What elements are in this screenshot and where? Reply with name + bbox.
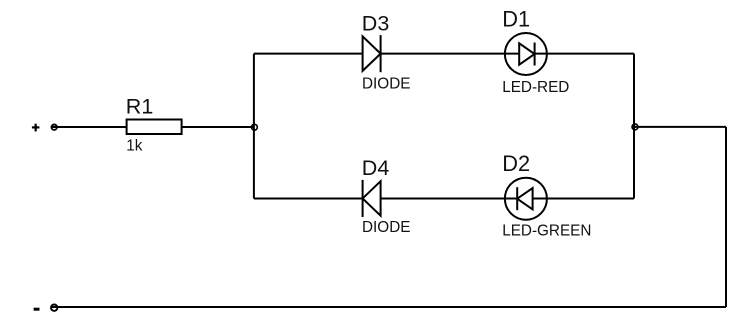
wire + terminal to R1 bbox=[52, 126, 127, 128]
diode D3 bbox=[363, 35, 381, 72]
svg-text:R1: R1 bbox=[126, 94, 153, 118]
wire right branch vertical bbox=[633, 54, 635, 199]
node left junction bbox=[252, 124, 258, 130]
wire far-right vertical bbox=[725, 127, 727, 307]
diode D4 bbox=[363, 180, 381, 217]
wire right junction to right edge bbox=[634, 126, 726, 128]
wire top branch bbox=[254, 53, 634, 55]
svg-text:DIODE: DIODE bbox=[362, 219, 410, 236]
wire R1 to left junction bbox=[182, 126, 254, 128]
svg-text:D1: D1 bbox=[502, 6, 530, 31]
terminal - (negative supply) bbox=[34, 305, 58, 311]
node right junction bbox=[632, 124, 638, 130]
svg-text:DIODE: DIODE bbox=[362, 75, 410, 92]
terminal + (positive supply) bbox=[32, 124, 57, 132]
svg-text:LED-RED: LED-RED bbox=[502, 79, 569, 96]
resistor R1 bbox=[127, 120, 182, 135]
svg-text:D2: D2 bbox=[502, 151, 530, 176]
svg-text:LED-GREEN: LED-GREEN bbox=[502, 223, 591, 240]
wire left branch vertical bbox=[253, 54, 255, 199]
wire bottom branch bbox=[254, 198, 634, 200]
svg-text:D3: D3 bbox=[362, 12, 390, 36]
svg-text:1k: 1k bbox=[126, 137, 143, 154]
wire bottom return bbox=[52, 306, 726, 308]
LED D1 bbox=[505, 33, 547, 75]
svg-text:D4: D4 bbox=[362, 156, 390, 180]
LED D2 bbox=[505, 178, 547, 220]
